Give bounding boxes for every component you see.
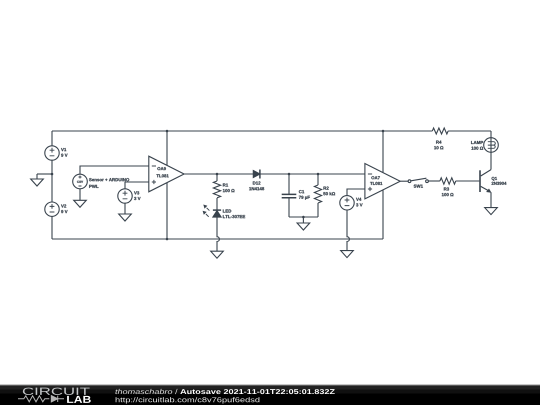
label R4 (434, 141, 443, 150)
resistor R1 (213, 181, 220, 198)
logo CIRCUIT wordmark (23, 388, 90, 395)
label V3 (134, 191, 141, 200)
wire OA7 V+ supply (382, 131, 384, 172)
label R3 (442, 187, 454, 196)
node junction at ground stem (302, 216, 305, 219)
wire ground tap (37, 173, 52, 175)
wire R2 top stub (317, 174, 319, 185)
wire V3 to ground (124, 203, 126, 214)
label V1 (61, 148, 68, 157)
label C1 (299, 190, 310, 200)
label Q1 (492, 177, 507, 185)
ground symbol left (31, 174, 44, 186)
footer bar (0, 385, 540, 405)
wire top rail right of R4 (448, 130, 491, 132)
wire R1 top stub (216, 174, 218, 181)
logo mini resistor and diode (18, 396, 64, 402)
resistor R3 (440, 178, 456, 184)
wire OA9 V- supply (166, 183, 168, 239)
diode D12 1N4148 (253, 170, 260, 179)
wire C1 to R2 bottom link (289, 216, 318, 218)
wire left rail to V1 (51, 131, 53, 146)
label SW1 (414, 185, 423, 188)
wire C1 bottom (288, 198, 290, 217)
voltage source V1 (45, 146, 59, 160)
wire SW1 to R3 (428, 180, 440, 182)
node junction C1 top (288, 173, 291, 176)
wire bottom rail (52, 238, 383, 240)
wire PWL source to OA9 inverting input (80, 166, 149, 174)
voltage source V2 (45, 202, 59, 216)
wire Q1 emitter to ground (490, 192, 492, 207)
wire top rail (52, 130, 432, 132)
label D12 (249, 181, 264, 190)
wire R1 to LED (216, 198, 218, 210)
node junction on left rail (51, 173, 54, 176)
ground symbol V3 (119, 214, 132, 221)
node junction R1 top (216, 173, 219, 176)
op-amp OA9 TL081 (149, 156, 184, 192)
node junction OA9 V+ on top rail (166, 130, 169, 133)
wire V2 to bottom rail (51, 216, 53, 239)
label OA7 (370, 176, 382, 185)
label R1 (223, 183, 235, 192)
wire OA7 output to SW1 (400, 180, 408, 182)
wire LED to ground hopping over bottom rail (217, 217, 219, 251)
ground symbol PWL (74, 200, 87, 207)
op-amp OA7 TL081 (365, 164, 400, 199)
source PWL Sensor + ARDUINO (73, 174, 88, 189)
wire V4 to ground hopping over bottom rail (347, 210, 349, 251)
footer text line 1 author and autosave (115, 389, 334, 394)
wire Q1 collector to lamp (490, 131, 492, 170)
wire R2 bottom (317, 203, 319, 217)
label PWL value (89, 178, 129, 188)
voltage source V3 (118, 189, 132, 203)
ground symbol C1 R2 (297, 217, 310, 230)
voltage source V4 (340, 196, 354, 210)
logo LAB wordmark (67, 396, 91, 403)
wire OA9 output (184, 173, 253, 175)
wire OA7 V- supply (382, 190, 384, 239)
ground symbol Q1 (485, 208, 498, 215)
wire D12 to OA7 inverting input (260, 173, 365, 175)
lamp LAMP 100 Ohm (484, 138, 499, 153)
switch SW1 (408, 178, 428, 182)
wire V4 to OA7 noninverting input (347, 189, 365, 196)
ground symbol LED (211, 251, 224, 258)
node junction OA9 V- on bottom rail (166, 238, 169, 241)
label V4 (356, 198, 363, 207)
label LAMP (471, 141, 483, 150)
label CSV inside PWL source (77, 181, 83, 183)
label V2 (61, 204, 68, 213)
wire V3 to OA9 noninverting input (125, 182, 149, 189)
wire V1 to V2 (51, 160, 53, 202)
capacitor C1 (282, 194, 297, 197)
ground symbol V4 (341, 251, 354, 258)
transistor Q1 2N3904 (480, 170, 492, 193)
footer text line 2 url (116, 397, 260, 404)
label LED (223, 209, 245, 218)
wire C1 top stub (288, 174, 290, 194)
wire OA9 V+ supply (166, 131, 168, 165)
node junction R2 top (317, 173, 320, 176)
label R2 (323, 187, 335, 196)
node junction OA7 V+ on top rail (382, 130, 385, 133)
wire R3 to Q1 base (456, 180, 480, 182)
label OA9 (156, 167, 168, 177)
wire PWL to ground (79, 189, 81, 201)
resistor R2 (314, 185, 321, 203)
resistor R4 (432, 128, 448, 134)
LED LTL-307EE (203, 205, 222, 218)
